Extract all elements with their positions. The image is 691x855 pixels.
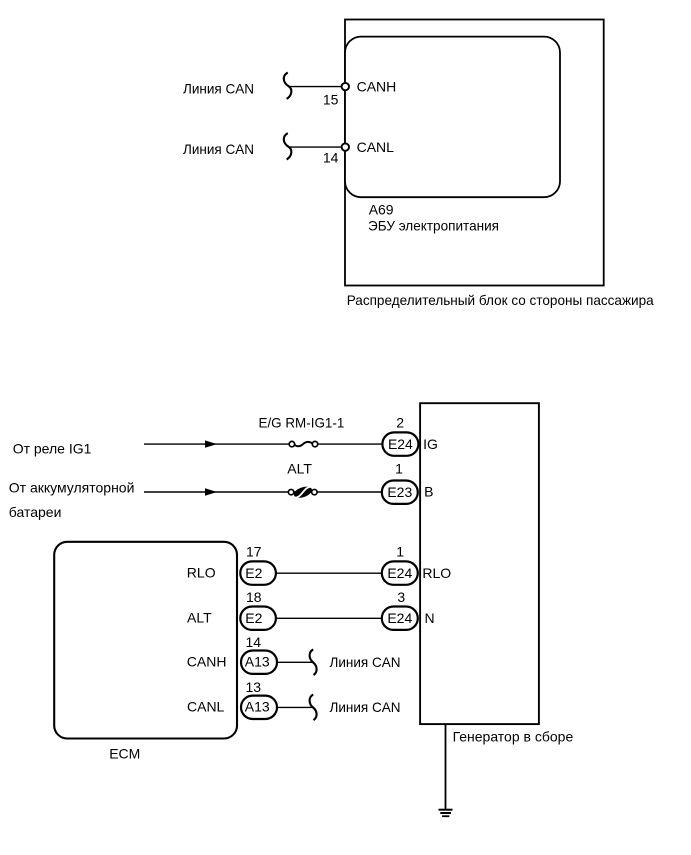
svg-text:18: 18 <box>246 589 262 605</box>
svg-text:батареи: батареи <box>9 504 62 520</box>
svg-text:RLO: RLO <box>422 565 451 581</box>
svg-text:CANL: CANL <box>187 699 225 715</box>
svg-text:E2: E2 <box>245 565 262 581</box>
svg-text:CANH: CANH <box>187 653 227 669</box>
svg-text:Линия CAN: Линия CAN <box>330 699 401 715</box>
svg-text:ALT: ALT <box>287 460 312 476</box>
svg-text:CANL: CANL <box>357 139 395 155</box>
svg-text:14: 14 <box>246 634 262 650</box>
svg-text:Линия CAN: Линия CAN <box>330 654 401 670</box>
svg-text:A13: A13 <box>245 654 270 670</box>
svg-text:1: 1 <box>395 460 403 476</box>
svg-text:1: 1 <box>396 544 404 560</box>
svg-text:От аккумуляторной: От аккумуляторной <box>9 479 135 495</box>
svg-text:Линия CAN: Линия CAN <box>183 80 254 96</box>
svg-text:Линия CAN: Линия CAN <box>183 141 254 157</box>
svg-text:14: 14 <box>323 150 339 166</box>
svg-text:IG: IG <box>423 436 438 452</box>
svg-text:E/G RM-IG1-1: E/G RM-IG1-1 <box>259 414 345 430</box>
svg-text:A69: A69 <box>369 201 394 217</box>
svg-text:2: 2 <box>396 414 404 430</box>
svg-text:E24: E24 <box>387 610 412 626</box>
svg-text:E2: E2 <box>245 610 262 626</box>
svg-text:Генератор в сборе: Генератор в сборе <box>453 728 574 744</box>
svg-text:17: 17 <box>246 544 262 560</box>
svg-text:N: N <box>425 610 435 626</box>
svg-text:B: B <box>424 484 433 500</box>
svg-text:13: 13 <box>246 679 262 695</box>
svg-text:RLO: RLO <box>187 565 216 581</box>
svg-text:A13: A13 <box>245 699 270 715</box>
svg-text:15: 15 <box>323 92 339 108</box>
svg-text:ALT: ALT <box>187 610 212 626</box>
svg-text:Распределительный блок со стор: Распределительный блок со стороны пассаж… <box>347 292 654 308</box>
svg-text:E24: E24 <box>387 565 412 581</box>
svg-text:ECM: ECM <box>109 746 140 762</box>
svg-text:CANH: CANH <box>357 79 397 95</box>
svg-text:3: 3 <box>397 589 405 605</box>
svg-text:ЭБУ электропитания: ЭБУ электропитания <box>368 218 499 234</box>
svg-text:E23: E23 <box>387 484 412 500</box>
svg-text:E24: E24 <box>388 436 413 452</box>
svg-text:От реле IG1: От реле IG1 <box>13 440 92 456</box>
